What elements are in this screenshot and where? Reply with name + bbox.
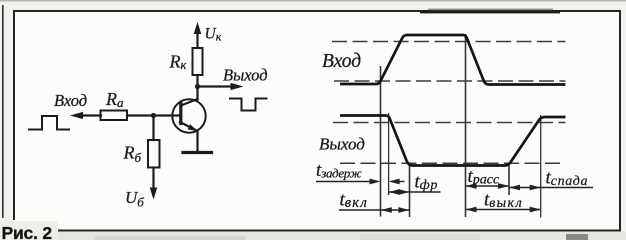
marker line t1 input rise bbox=[380, 66, 382, 217]
resistor Rк bbox=[193, 48, 203, 75]
strip below figure bbox=[0, 232, 626, 240]
dashed level line output low bbox=[340, 162, 566, 164]
t вкл arrow left head bbox=[381, 207, 392, 213]
t задерж arrow left bbox=[389, 179, 400, 185]
t фр dimension line bbox=[389, 191, 441, 193]
output waveform bbox=[340, 116, 566, 166]
svg-text:Рис. 2: Рис. 2 bbox=[2, 223, 53, 240]
input arrow head bbox=[70, 112, 83, 119]
output wire bbox=[198, 85, 232, 87]
scan line top edge bbox=[0, 0, 626, 2]
Uк arrow head bbox=[194, 22, 202, 34]
frame bottom border bbox=[57, 230, 621, 232]
t задерж opposing tail bbox=[398, 181, 405, 183]
dashed level line output high bbox=[333, 122, 566, 124]
marker line t2 output fall start bbox=[388, 113, 390, 195]
svg-text:Вход: Вход bbox=[322, 51, 361, 72]
dashed level line input low bbox=[334, 80, 566, 82]
t выкл dimension line bbox=[466, 209, 541, 211]
ground bar bbox=[183, 151, 212, 154]
wire Ra to base node bbox=[127, 114, 181, 116]
emitter wire down bbox=[196, 131, 198, 152]
frame top border thick segment bbox=[420, 10, 560, 13]
collector wire up bbox=[196, 87, 198, 100]
t расс arrow left head bbox=[466, 183, 477, 189]
frame left border bbox=[13, 10, 15, 220]
emitter arrow head bbox=[188, 124, 198, 131]
t спада arrow left head bbox=[509, 185, 520, 191]
t вкл dimension line bbox=[339, 209, 409, 211]
caption patch bbox=[0, 221, 58, 240]
marker line t5 output rise start bbox=[508, 165, 510, 196]
wire input to resistor Ra bbox=[80, 114, 101, 116]
wire Rк to Uк arrow bbox=[196, 33, 198, 48]
junction dot base bbox=[151, 113, 156, 118]
wire node to Rб bbox=[152, 116, 154, 141]
t задерж arrow right bbox=[370, 179, 381, 185]
smudge under strip mid bbox=[360, 234, 480, 240]
junction dot collector bbox=[195, 84, 200, 89]
t расс arrow right head bbox=[498, 183, 509, 189]
t расс dimension line bbox=[466, 185, 510, 187]
Uб arrow head bbox=[150, 188, 158, 200]
t выкл arrow right head bbox=[530, 207, 541, 213]
input pulse symbol bbox=[29, 116, 69, 130]
svg-text:Выход: Выход bbox=[319, 135, 365, 154]
t спада dimension line bbox=[509, 187, 593, 189]
t спада arrow right head bbox=[530, 185, 541, 191]
transistor collector diagonal bbox=[181, 99, 198, 106]
frame top border bbox=[13, 10, 621, 12]
wire Rб to Uб arrow bbox=[152, 168, 154, 190]
marker line t4 input fall bbox=[465, 34, 467, 217]
output pulse symbol bbox=[230, 99, 267, 111]
smudge bottom right bbox=[566, 234, 588, 240]
output arrow head bbox=[231, 83, 244, 90]
t вкл arrow right head bbox=[398, 207, 409, 213]
smudge under strip left bbox=[95, 236, 245, 240]
t фр arrow left head bbox=[389, 189, 400, 195]
marker line t6 output rise end bbox=[540, 115, 542, 218]
transistor VT1 circle bbox=[172, 99, 205, 132]
resistor Rб bbox=[148, 140, 160, 168]
transistor base bar bbox=[179, 104, 182, 124]
scan line left edge bbox=[2, 5, 4, 218]
frame right border bbox=[619, 10, 621, 231]
marker line t3 output fall end bbox=[409, 163, 411, 217]
transistor emitter diagonal bbox=[180, 122, 196, 130]
dashed level line input high bbox=[332, 41, 566, 43]
svg-text:Вход: Вход bbox=[54, 91, 87, 110]
wire dot to Rк bbox=[196, 75, 198, 87]
input waveform bbox=[340, 35, 566, 85]
svg-text:Выход: Выход bbox=[223, 66, 268, 85]
t фр arrow right head bbox=[399, 189, 410, 195]
t выкл arrow left head bbox=[466, 207, 477, 213]
t задерж leader line bbox=[316, 181, 373, 183]
resistor Ra bbox=[101, 111, 128, 121]
